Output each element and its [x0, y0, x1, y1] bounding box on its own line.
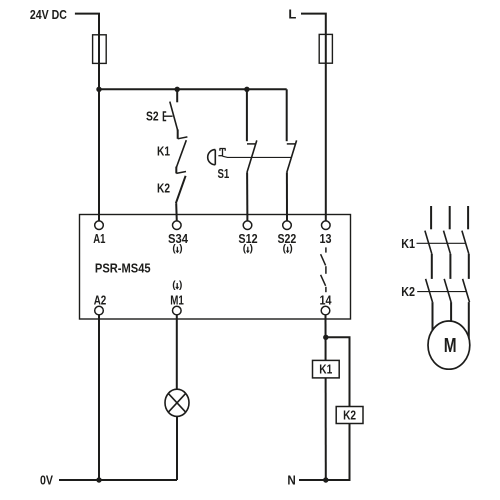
contact K1 (NO)	[157, 130, 187, 168]
emergency stop S1 contact 1 (NC)	[247, 140, 257, 221]
svg-text:K2: K2	[157, 180, 170, 195]
wire M1 to lamp	[176, 315, 178, 390]
motor M	[428, 321, 470, 369]
terminal M1	[173, 306, 182, 315]
svg-text:PSR-MS45: PSR-MS45	[95, 260, 151, 275]
svg-text:S12: S12	[238, 231, 257, 246]
svg-text:): )	[179, 244, 182, 255]
label M1 arrow	[172, 280, 182, 291]
svg-text:A1: A1	[93, 231, 105, 246]
svg-text:K2: K2	[343, 408, 356, 423]
wire A2 to 0V	[98, 315, 100, 480]
wire 14 to coils	[325, 315, 327, 480]
switch S2	[146, 89, 178, 130]
label S34 arrow	[172, 244, 182, 255]
svg-text:14: 14	[320, 292, 333, 307]
svg-text:M: M	[444, 334, 457, 357]
svg-text:0V: 0V	[40, 472, 53, 487]
svg-text:K1: K1	[157, 143, 170, 158]
node junction coil branch	[323, 335, 328, 340]
svg-text:L: L	[288, 6, 296, 21]
node junction 0V/A2	[96, 477, 101, 482]
svg-text:S1: S1	[218, 166, 230, 181]
emergency stop S1 contact 2 (NC)	[287, 140, 297, 221]
S1 mushroom actuator	[208, 149, 226, 165]
terminal 14	[321, 306, 330, 315]
wire to S22 branch	[286, 89, 288, 141]
contactor K1 blades	[425, 231, 469, 254]
wire N	[299, 479, 326, 481]
svg-text:N: N	[287, 473, 295, 488]
contactor K2 linkage	[417, 291, 466, 293]
svg-text:K1: K1	[319, 362, 332, 377]
terminal A1	[95, 221, 104, 230]
wire 24VDC feed	[75, 14, 99, 90]
contactor phase leads middle	[432, 254, 469, 279]
svg-text:13: 13	[320, 231, 332, 246]
contactor phase leads bottom	[433, 302, 469, 338]
contactor K2 blades	[426, 279, 470, 302]
svg-text:K2: K2	[401, 284, 415, 299]
indicator lamp	[165, 389, 189, 416]
wire to A1	[98, 89, 100, 221]
wire K2 branch	[326, 337, 350, 480]
terminal S34	[173, 221, 182, 230]
svg-text:): )	[179, 280, 182, 291]
svg-text:): )	[250, 244, 253, 255]
terminal S12	[243, 221, 252, 230]
contactor K1 linkage	[417, 242, 466, 244]
svg-text:S22: S22	[278, 231, 297, 246]
contactor phase leads top	[431, 206, 468, 229]
svg-text:24V DC: 24V DC	[30, 7, 67, 22]
wire 0V bus	[59, 479, 177, 481]
label S22 arrow	[283, 244, 293, 255]
wire L feed	[301, 14, 326, 222]
terminal S22	[283, 221, 292, 230]
node junction S2 branch	[175, 87, 180, 92]
svg-text:K1: K1	[401, 236, 415, 251]
svg-text:S2: S2	[146, 109, 159, 124]
fuse F1	[93, 35, 107, 64]
coil K2	[336, 407, 363, 424]
node junction A1	[96, 87, 101, 92]
contact K2 (NO)	[157, 167, 186, 222]
internal contact 13-14	[321, 247, 326, 292]
safety relay box PSR-MS45	[80, 215, 351, 320]
coil K1	[313, 360, 340, 378]
terminal A2	[95, 306, 104, 315]
node junction S1 branch	[244, 87, 249, 92]
svg-text:): )	[289, 244, 292, 255]
S1 linkage line	[223, 156, 292, 157]
svg-text:M1: M1	[170, 292, 184, 307]
label S12 arrow	[243, 244, 253, 255]
wire to S12 branch	[246, 89, 248, 141]
node junction N	[323, 477, 328, 482]
wire lamp to 0V	[176, 416, 178, 480]
terminal 13	[322, 221, 331, 230]
wire supply bus	[99, 88, 287, 90]
fuse F2	[319, 34, 332, 63]
svg-text:A2: A2	[94, 292, 107, 307]
